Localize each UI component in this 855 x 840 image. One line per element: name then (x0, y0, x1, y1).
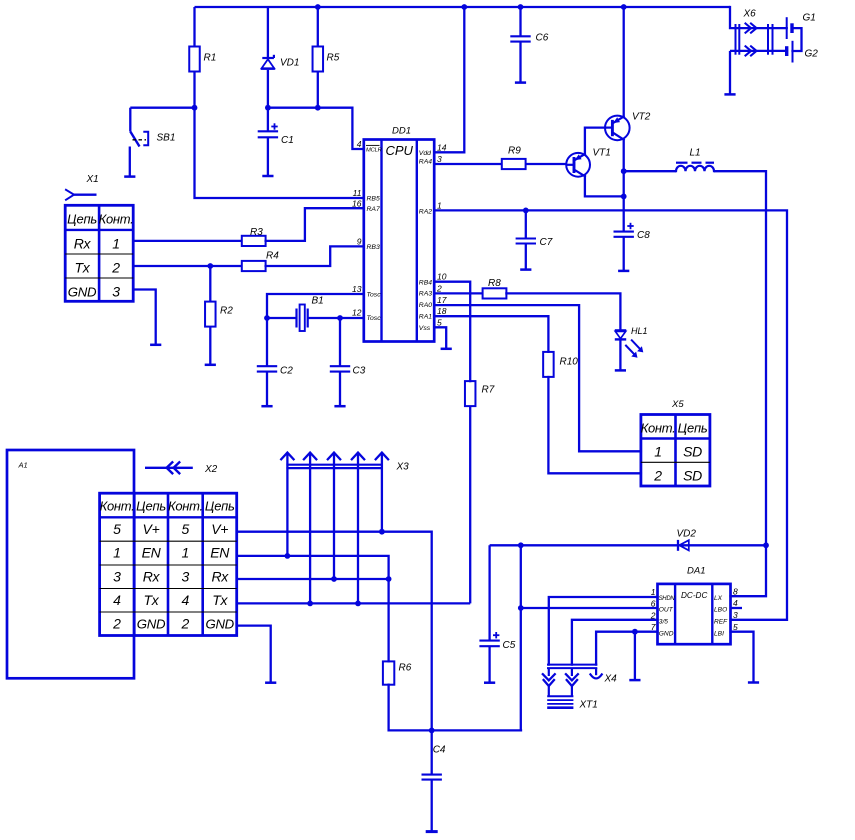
capacitor C2 (257, 318, 293, 406)
svg-text:G1: G1 (803, 13, 816, 24)
svg-text:CPU: CPU (386, 143, 414, 158)
jumper XT1 (547, 696, 598, 710)
ground DA1 GND (629, 679, 640, 682)
svg-text:2: 2 (653, 468, 662, 484)
connector X4 (543, 665, 617, 697)
capacitor C3 (330, 318, 366, 406)
svg-text:8: 8 (733, 587, 738, 597)
ground under SB1 (124, 175, 135, 178)
svg-text:OUT: OUT (659, 607, 674, 614)
wire X1 pin3 GND to ground (133, 290, 156, 345)
svg-text:RA7: RA7 (367, 206, 380, 213)
ground under C1 (262, 175, 273, 178)
svg-text:DD1: DD1 (392, 126, 411, 137)
wire R8 to HL1 (506, 293, 620, 330)
wire DA1 pin1 SHDN to X4 (549, 597, 658, 665)
svg-text:5: 5 (733, 622, 738, 632)
resistor R3 (242, 227, 266, 246)
crystal B1 (264, 296, 364, 332)
svg-text:X6: X6 (743, 9, 757, 20)
diode VD1 zener (261, 7, 300, 108)
op-amp U2 DC-DC converter DA1 (650, 566, 738, 645)
svg-text:R8: R8 (488, 278, 501, 289)
wire DA1 pin7 GND to X4 (596, 629, 657, 665)
wire VT1 collector to node (585, 176, 624, 197)
svg-text:R1: R1 (204, 53, 217, 64)
wire SB1 to R1 node (130, 105, 197, 111)
resistor R5 (313, 4, 340, 108)
connector X3 (281, 453, 409, 473)
ground under C5 (484, 681, 495, 684)
svg-text:REF: REF (714, 619, 728, 626)
ground under C7 (520, 268, 531, 271)
svg-text:R4: R4 (266, 251, 279, 262)
svg-text:1: 1 (182, 545, 190, 561)
svg-text:5: 5 (113, 521, 121, 537)
svg-text:1: 1 (113, 545, 121, 561)
transistor VT1 (566, 148, 611, 177)
connector X5 table (641, 399, 710, 486)
svg-text:RA4: RA4 (419, 159, 432, 166)
wire CPU pin 10 to R7 (434, 282, 470, 381)
svg-text:4: 4 (733, 598, 738, 608)
svg-text:14: 14 (437, 142, 447, 152)
svg-text:1: 1 (437, 200, 442, 210)
ground under C4 (426, 830, 438, 833)
wire R9 to VT1 base (526, 163, 567, 165)
battery G1 (787, 13, 816, 52)
svg-text:Конт.: Конт. (168, 499, 203, 514)
resistor R2 (205, 263, 233, 364)
connector X1 pin symbol (66, 174, 99, 200)
ground under C8 (618, 270, 629, 273)
transistor VT2 (605, 112, 651, 141)
capacitor C7 (516, 210, 553, 269)
svg-text:B1: B1 (312, 296, 324, 307)
ground under HL1 (615, 369, 626, 372)
svg-text:5: 5 (182, 521, 190, 537)
svg-text:RA0: RA0 (419, 302, 432, 309)
svg-text:18: 18 (437, 306, 447, 316)
svg-text:Tx: Tx (144, 592, 160, 608)
wire GND net to ground (237, 626, 271, 682)
svg-text:1: 1 (112, 236, 120, 252)
svg-text:MCLR: MCLR (366, 148, 383, 154)
svg-text:GND: GND (659, 631, 674, 638)
svg-text:4: 4 (182, 592, 190, 608)
wire DA1 pin5 LBI to ground (731, 632, 754, 682)
svg-text:3/5: 3/5 (659, 619, 668, 626)
svg-text:9: 9 (357, 237, 362, 247)
svg-text:R3: R3 (250, 227, 263, 238)
wire R7 to Tx line (469, 406, 471, 603)
wire L1 to VD2 and pin8 LX (731, 171, 769, 596)
wire node to CPU pin 11 (195, 108, 364, 198)
wire EN net (237, 556, 389, 662)
svg-text:GND: GND (68, 285, 97, 300)
resistor R6 (383, 661, 412, 684)
svg-text:RA3: RA3 (419, 291, 432, 298)
wire X3 pin to Tx line a (307, 453, 313, 607)
wire R10 to X5 pin2 (548, 377, 641, 473)
block A1 (7, 450, 134, 678)
svg-text:2: 2 (111, 260, 120, 276)
wire Tx net (237, 602, 471, 604)
svg-text:Цепь: Цепь (136, 499, 166, 514)
svg-text:3: 3 (437, 154, 442, 164)
capacitor C6 (510, 4, 548, 82)
svg-text:C3: C3 (353, 366, 366, 377)
svg-text:Rx: Rx (74, 236, 92, 252)
svg-text:16: 16 (352, 198, 362, 208)
svg-text:HL1: HL1 (631, 326, 648, 336)
wire output node vertical (518, 545, 524, 730)
svg-text:DC-DC: DC-DC (681, 591, 707, 600)
svg-text:Tosc: Tosc (367, 292, 382, 299)
svg-text:LBI: LBI (714, 631, 724, 638)
ground X1 GND (150, 344, 161, 347)
svg-text:RA1: RA1 (419, 313, 432, 320)
svg-text:13: 13 (352, 284, 362, 294)
diode VD2 (677, 529, 697, 551)
wire VD2 line (490, 542, 766, 548)
svg-text:C1: C1 (281, 135, 294, 146)
svg-text:SHDN: SHDN (659, 596, 676, 602)
svg-text:SB1: SB1 (157, 133, 176, 144)
wire R3 to CPU pin 16 (266, 208, 364, 241)
svg-text:GND: GND (205, 616, 234, 631)
svg-text:Tosc: Tosc (367, 315, 382, 322)
wire CPU pin 14 Vdd to rail (434, 4, 467, 152)
svg-text:SD: SD (683, 468, 702, 484)
svg-text:GND: GND (137, 616, 166, 631)
svg-text:3: 3 (733, 610, 738, 620)
connector X1 table (65, 205, 133, 301)
svg-text:C4: C4 (433, 745, 446, 756)
resistor R10 (543, 352, 578, 377)
connector X2 symbol (145, 462, 218, 475)
ground under C2 (261, 405, 272, 408)
switch SB1 (130, 108, 176, 176)
wire CPU pin 13 to crystal (267, 294, 364, 318)
resistor R1 (189, 7, 216, 108)
wire R6 to output node (389, 685, 521, 731)
wire DA1 pin2 3/5 to X4 (572, 620, 658, 665)
svg-text:Rx: Rx (143, 568, 161, 584)
svg-text:Цепь: Цепь (67, 212, 97, 227)
svg-text:VT2: VT2 (632, 112, 651, 123)
svg-text:R6: R6 (399, 663, 412, 674)
resistor R7 (465, 381, 495, 406)
svg-text:G2: G2 (805, 49, 819, 60)
svg-text:Конт.: Конт. (641, 421, 676, 436)
svg-text:DA1: DA1 (687, 566, 705, 577)
wire V+ net (237, 532, 432, 731)
wire C1 node to CPU pin 4 (265, 105, 364, 149)
LED HL1 (615, 326, 648, 370)
wire CPU pin 5 Vss to ground (434, 327, 446, 348)
capacitor C5 (479, 545, 515, 682)
wire DA1 pin6 OUT (521, 607, 658, 609)
ground under C3 (334, 405, 345, 408)
connector X2 table (100, 493, 237, 635)
wire top power rail (195, 6, 731, 8)
svg-text:C6: C6 (536, 33, 549, 44)
svg-text:Конт.: Конт. (100, 499, 135, 514)
svg-text:LBO: LBO (714, 607, 727, 614)
svg-text:R10: R10 (560, 357, 579, 368)
svg-text:RB4: RB4 (419, 279, 432, 286)
ground table GND (265, 681, 276, 684)
svg-text:2: 2 (436, 283, 442, 293)
svg-text:3: 3 (182, 568, 190, 584)
wire CPU pin 1 RA2 to DA1 REF (434, 208, 787, 620)
svg-text:Конт.: Конт. (99, 212, 134, 227)
ground under C6 (515, 81, 526, 84)
wire CPU pin 3 to R9 (434, 163, 502, 165)
wire VT1 emitter to VT2 base (585, 128, 605, 155)
svg-text:R9: R9 (508, 146, 521, 157)
capacitor C8 (614, 196, 651, 270)
wire X3 pin to V+ line (379, 453, 385, 535)
svg-text:1: 1 (651, 587, 656, 597)
svg-text:12: 12 (352, 307, 362, 317)
wire VT2 collector down (621, 140, 627, 200)
ground under X6 (724, 93, 735, 96)
svg-text:Tx: Tx (75, 260, 91, 276)
connector X6 (730, 7, 787, 56)
wire CPU pin 18 to R10 (434, 316, 548, 352)
svg-text:R2: R2 (220, 306, 233, 317)
svg-text:EN: EN (142, 545, 162, 561)
svg-text:3: 3 (112, 284, 120, 300)
svg-text:C5: C5 (503, 640, 516, 651)
svg-text:Vdd: Vdd (419, 150, 431, 157)
wire X1 pin2 Tx to R4 (133, 265, 242, 267)
svg-text:2: 2 (181, 615, 190, 631)
wire X1 pin1 Rx to R3 (133, 240, 242, 242)
resistor R4 (242, 251, 279, 272)
svg-text:4: 4 (357, 139, 362, 149)
svg-text:Цепь: Цепь (205, 499, 235, 514)
svg-text:C2: C2 (280, 366, 293, 377)
wire CPU pin 17 to X5 pin1 (434, 305, 641, 451)
svg-text:V+: V+ (143, 521, 160, 537)
svg-text:11: 11 (353, 188, 362, 198)
svg-text:A1: A1 (18, 461, 28, 470)
svg-text:C7: C7 (540, 237, 553, 248)
svg-text:Tx: Tx (212, 592, 228, 608)
svg-text:LX: LX (714, 595, 723, 602)
svg-text:VT1: VT1 (593, 148, 611, 159)
svg-text:L1: L1 (690, 148, 701, 159)
svg-text:EN: EN (210, 545, 230, 561)
capacitor C4 (422, 728, 446, 831)
svg-text:X1: X1 (86, 174, 99, 185)
svg-text:Rx: Rx (211, 568, 229, 584)
svg-text:X2: X2 (204, 464, 218, 475)
wire CPU pin 2 to R8 (434, 292, 482, 294)
wire X3 pin to Tx line b (355, 453, 361, 607)
ground Vss (441, 348, 452, 351)
svg-text:Vss: Vss (419, 325, 431, 332)
svg-text:17: 17 (437, 295, 447, 305)
wire VT2 emitter to rail (621, 4, 627, 117)
battery G2 (787, 41, 819, 63)
wire Rx net (237, 576, 392, 582)
svg-text:VD1: VD1 (280, 58, 299, 69)
svg-text:1: 1 (654, 444, 662, 460)
wire X6 to ground (729, 51, 731, 94)
svg-text:X4: X4 (604, 674, 618, 685)
op-amp U1 CPU DD1 block (352, 126, 447, 342)
svg-text:X3: X3 (396, 462, 410, 473)
wire X3 pin to Rx line (331, 453, 337, 582)
svg-text:R7: R7 (482, 385, 495, 396)
wire DA1 pin4 LBO stub (731, 607, 743, 609)
wire X3 pin to EN line (285, 453, 291, 559)
svg-text:RB5: RB5 (367, 196, 380, 203)
svg-text:X5: X5 (671, 399, 684, 410)
svg-text:V+: V+ (211, 521, 228, 537)
svg-text:R5: R5 (327, 53, 340, 64)
ground under R2 (205, 364, 216, 367)
svg-text:RA2: RA2 (419, 209, 432, 216)
capacitor C1 (258, 108, 294, 176)
svg-text:XT1: XT1 (579, 700, 598, 711)
svg-text:RB3: RB3 (367, 244, 380, 251)
wire DA1 GND branch to ground (634, 632, 636, 680)
svg-text:3: 3 (113, 568, 121, 584)
resistor R9 (502, 146, 526, 170)
svg-text:5: 5 (437, 317, 442, 327)
svg-text:10: 10 (437, 272, 447, 282)
svg-text:SD: SD (683, 444, 702, 460)
inductor L1 (624, 148, 766, 172)
svg-text:2: 2 (112, 615, 121, 631)
svg-text:C8: C8 (637, 230, 650, 241)
resistor R8 (483, 278, 507, 299)
svg-text:Цепь: Цепь (678, 421, 708, 436)
svg-text:4: 4 (113, 592, 121, 608)
ground LBI (748, 681, 759, 684)
wire R4 to CPU pin 9 (266, 246, 364, 266)
svg-text:VD2: VD2 (677, 529, 697, 540)
